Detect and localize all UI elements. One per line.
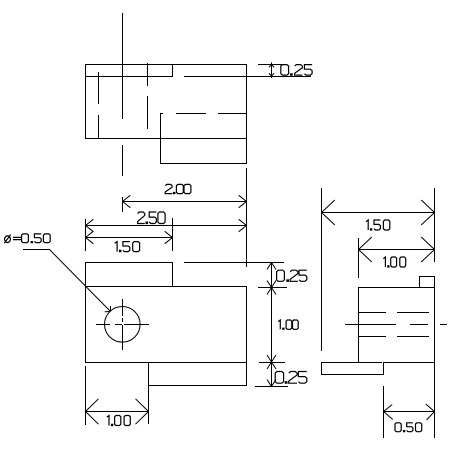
side view outline [321, 276, 435, 375]
top view outline [85, 64, 247, 164]
text 1.50 front [115, 242, 140, 252]
dim 1.50 front arrows [86, 231, 173, 243]
front bottom 1.00 arrows [86, 399, 149, 424]
side ext x383 bottom [383, 386, 385, 438]
leader line [50, 250, 111, 312]
text 0.50 side [395, 423, 422, 432]
dim 0.25 top extension [258, 64, 287, 66]
side 1.50 arrows [322, 200, 435, 225]
top view centerline x122 [122, 13, 124, 212]
side hidden row bottom [358, 336, 429, 338]
side 1.00 arrows [359, 237, 435, 262]
leader arrow [105, 306, 111, 312]
top view hidden line y113 [160, 113, 247, 115]
text 0.25 right bottom [275, 372, 307, 384]
top view hidden line x147 [147, 63, 149, 129]
front circle h centerline [96, 324, 149, 326]
extension line x172 [172, 218, 174, 251]
right stack extension rows [184, 263, 288, 387]
text 1.00 right [278, 320, 298, 329]
top view step edge y76 [85, 64, 311, 77]
side ext x358 [358, 238, 360, 278]
text 1.50 side [366, 220, 390, 230]
front bottom dim 1.00 line [85, 411, 149, 413]
front circle [105, 307, 141, 343]
top view hidden line x98 [98, 72, 100, 139]
right stack arrows [267, 263, 276, 387]
dim 1.50 front line [85, 237, 173, 239]
dim 2.50 line [85, 225, 247, 227]
text 1.00 side [383, 257, 405, 267]
side ext x434 top [434, 188, 436, 262]
front circle v centerline [122, 299, 124, 350]
dim 2.00 arrows [123, 195, 247, 207]
side hidden row top [358, 312, 429, 314]
extension line x85 [85, 219, 87, 251]
leader underline [23, 249, 50, 251]
text 2.50 [138, 212, 166, 224]
text 0.25 top [281, 65, 312, 76]
front view outline [85, 262, 247, 424]
side dim 1.00 line [358, 249, 435, 251]
text 1.00 front bottom [107, 416, 131, 426]
dim 0.25 top line [271, 64, 273, 77]
text phi=0.50 [4, 234, 50, 243]
side ext x321 [321, 188, 323, 351]
right stack dim line [271, 262, 273, 387]
dim 0.25 top arrows [269, 63, 274, 79]
extension line x246 [246, 168, 248, 267]
text 0.25 right top [277, 270, 307, 281]
side ext x434 bottom [434, 362, 436, 438]
text 2.00 [165, 184, 191, 193]
dim 2.50 arrows [86, 219, 247, 231]
side 0.50 arrows [384, 404, 435, 420]
front view top tab [85, 262, 173, 287]
side dim 1.50 line [321, 212, 435, 214]
side dim 0.50 line [383, 411, 435, 413]
dim 2.00 line [122, 201, 247, 203]
side centerline row [345, 324, 447, 326]
front bottom ext x85 [85, 366, 87, 425]
